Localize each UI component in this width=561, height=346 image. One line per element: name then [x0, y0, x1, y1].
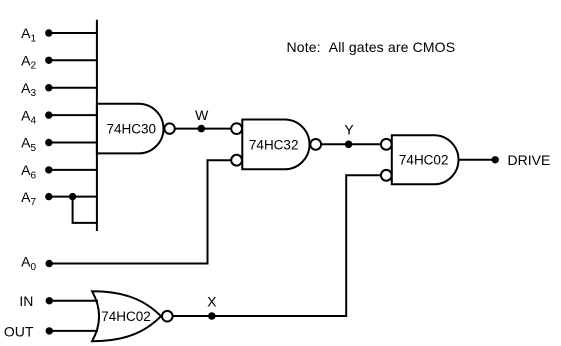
svg-text:74HC02: 74HC02 [101, 309, 151, 324]
svg-text:IN: IN [19, 293, 33, 309]
svg-text:74HC30: 74HC30 [107, 122, 157, 137]
svg-text:X: X [207, 293, 217, 309]
svg-text:DRIVE: DRIVE [508, 152, 551, 168]
svg-text:Note: All gates are CMOS: Note: All gates are CMOS [287, 39, 456, 55]
svg-text:Y: Y [344, 122, 354, 138]
svg-text:W: W [195, 107, 209, 123]
svg-text:74HC32: 74HC32 [249, 137, 299, 152]
svg-text:74HC02: 74HC02 [399, 153, 449, 168]
svg-text:OUT: OUT [4, 323, 34, 339]
